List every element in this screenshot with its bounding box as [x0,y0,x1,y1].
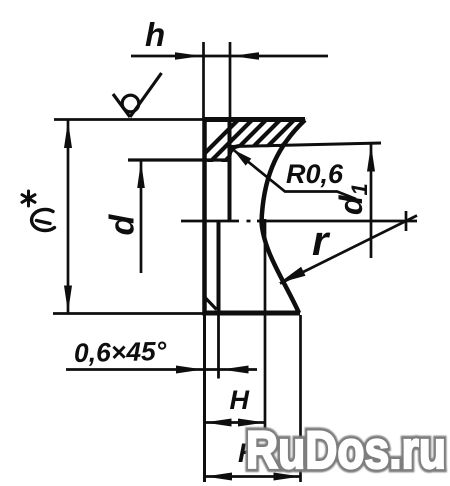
D* top extension line [54,118,204,121]
svg-text:RuDos.ru: RuDos.ru [246,421,446,480]
bottom dim arrow right [274,473,301,481]
radius center mark [405,211,408,231]
H arrow right [238,419,265,427]
h extension line right [229,42,232,118]
R0,6 leader line [233,150,356,200]
h arrow right [232,52,259,60]
svg-text:h: h [145,16,165,53]
bottom dimension line [204,475,301,478]
d1 arrow up [367,145,375,172]
svg-text:0,6×45°: 0,6×45° [74,336,167,368]
part top face [203,117,305,122]
extension bottom right [299,315,302,482]
H extension line right [264,219,267,434]
hatch section fill [190,112,372,168]
svg-text:d: d [104,214,142,236]
svg-text:H: H [230,385,250,415]
lower half feature line [217,221,221,313]
D* arrow down [64,286,72,313]
extension below part left [203,315,206,482]
h extension line left [202,42,205,118]
H dimension line [204,421,265,424]
d1 dimension line [370,144,373,258]
D* label [32,209,55,230]
d arrow up [137,161,145,188]
chamfer edge bottom left [206,298,217,310]
concave face radius r curve [262,120,306,313]
surface finish symbol [113,73,162,117]
r arrowhead [279,267,306,283]
H arrow left [205,419,232,427]
chamfer dimension line [66,368,257,371]
part bottom face [203,311,300,316]
D* dimension line [67,120,70,313]
D* bottom extension line [53,312,204,315]
chamfer arrow right-pointing [176,366,203,374]
fillet R0.6 at bore step corner [230,146,240,156]
r leader line [280,216,417,284]
watermark RuDos.ru [246,421,446,480]
center line [181,220,417,223]
d dimension line [140,161,143,273]
bore step face [228,119,232,221]
bore d1 line / extension [231,143,381,147]
R0,6 arrowhead [233,150,251,166]
svg-text:r: r [312,217,331,264]
bore d line [128,158,230,161]
svg-text:R0,6: R0,6 [286,159,344,189]
D* arrow up [64,121,72,148]
chamfer arrow left-pointing [222,366,249,374]
h dimension line [131,55,328,58]
part left face [202,117,207,316]
h arrow left [175,52,202,60]
chamfer extension line below part [217,313,220,379]
bottom dim arrow left [205,473,232,481]
